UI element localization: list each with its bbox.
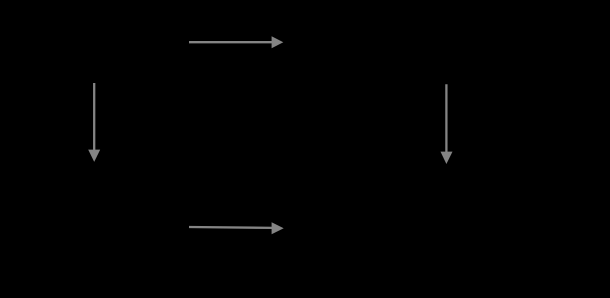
arrow left (left-top node down to left-bottom node) xyxy=(88,83,100,162)
arrow bottom (left-bottom node to right-bottom node) xyxy=(189,222,284,234)
arrow right (right-top node down to right-bottom node) xyxy=(441,84,453,164)
arrow top (left-top node to right-top node) xyxy=(189,36,283,48)
